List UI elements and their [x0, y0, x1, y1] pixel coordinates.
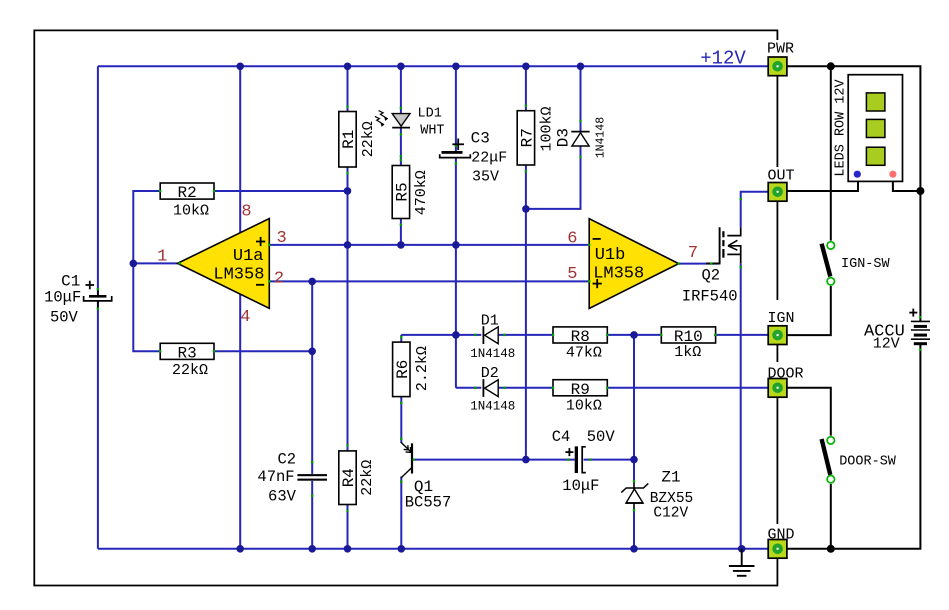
wire Q2 source down to ground rail	[740, 263, 742, 549]
connector pad DOOR	[768, 379, 787, 398]
svg-text:10kΩ: 10kΩ	[566, 398, 602, 415]
wire R1 top lead	[347, 66, 349, 111]
svg-text:Q2: Q2	[701, 267, 720, 285]
resistor R9	[553, 380, 607, 396]
node R7 line / D3	[522, 205, 530, 213]
node pin2 wire / C2 branch	[308, 278, 316, 286]
node top-rail / C3	[452, 63, 460, 71]
svg-text:47kΩ: 47kΩ	[566, 345, 602, 362]
svg-text:4: 4	[240, 308, 250, 327]
resistor R8	[553, 327, 607, 343]
wire pin2 node down through C2	[311, 281, 313, 474]
svg-text:PWR: PWR	[767, 41, 794, 58]
wire top +12V rail	[98, 65, 768, 67]
node R2 / R1 bottom	[344, 187, 352, 195]
wire Q1 base to C4	[412, 459, 575, 461]
wire U1b pin7 output to Q2 gate	[679, 263, 720, 265]
svg-text:22kΩ: 22kΩ	[172, 362, 208, 379]
capacitor C3	[440, 151, 471, 158]
wire OUT pad to LED row left pin	[787, 182, 858, 191]
svg-text:GND: GND	[768, 527, 795, 544]
svg-text:1N4148: 1N4148	[470, 400, 515, 414]
wire DOOR switch to GND wire	[830, 484, 832, 549]
svg-text:LD1: LD1	[418, 106, 442, 121]
node R8 / R10 / Z1 line	[630, 331, 638, 339]
svg-text:50V: 50V	[50, 308, 79, 326]
node top-rail / D3	[577, 63, 585, 71]
resistor R6	[393, 342, 410, 397]
node ground rail / Z1	[630, 545, 638, 553]
node ground rail / R4	[344, 545, 352, 553]
wire C3 bottom to D1 node	[455, 158, 457, 335]
svg-text:12V: 12V	[873, 336, 900, 353]
node pin3 wire / R1-R4 line	[344, 241, 352, 249]
svg-text:1kΩ: 1kΩ	[674, 344, 701, 361]
wire LD1 to R5	[400, 128, 402, 166]
svg-text:IGN-SW: IGN-SW	[841, 257, 891, 272]
connector pad PWR	[768, 57, 787, 76]
svg-text:OUT: OUT	[768, 168, 795, 185]
exterior black wires	[787, 66, 921, 549]
svg-text:1N4148: 1N4148	[594, 117, 607, 159]
wire DOOR pad to DOOR switch	[787, 388, 831, 436]
wire PWR pad to battery top corner	[787, 66, 921, 321]
svg-text:BZX55: BZX55	[650, 491, 694, 507]
capacitor C2	[297, 474, 327, 481]
wire C2 bottom lead	[311, 481, 313, 549]
wire U1a pin2 to U1b pin5	[269, 280, 589, 282]
wire U1a pin8	[239, 66, 241, 238]
wire D2 left lead	[456, 387, 481, 389]
wire R7 top lead	[525, 66, 527, 110]
svg-text:+12V: +12V	[700, 48, 746, 70]
ground symbol (earth)	[729, 549, 755, 576]
svg-text:2.2kΩ: 2.2kΩ	[414, 346, 431, 391]
op-amp U1a	[178, 219, 270, 309]
svg-text:50V: 50V	[587, 428, 616, 446]
node pin3 wire / C3 line	[452, 241, 460, 249]
wire Z1 top segment	[633, 335, 635, 481]
wire bottom ground rail	[98, 548, 768, 550]
diode D2	[483, 379, 498, 397]
svg-text:47nF: 47nF	[257, 468, 294, 486]
resistor R3	[160, 343, 214, 359]
node Q1 base / R7 line	[522, 456, 530, 464]
wire R7 bottom to Q1 base node	[525, 165, 527, 460]
wire battery bottom to GND pad	[787, 345, 921, 549]
switch IGN-SW	[822, 242, 835, 285]
wire U1a pin1 to node	[133, 262, 178, 264]
svg-text:Z1: Z1	[661, 469, 680, 487]
wire left rail lower	[97, 302, 99, 549]
svg-text:22kΩ: 22kΩ	[360, 121, 377, 157]
wire U1a pin4	[239, 290, 241, 549]
svg-text:1N4148: 1N4148	[470, 347, 515, 361]
svg-text:DOOR: DOOR	[768, 365, 804, 382]
svg-text:22μF: 22μF	[471, 150, 507, 167]
svg-text:R7: R7	[518, 128, 536, 147]
resistor R5	[392, 166, 409, 219]
node U1a pin1 / R2 / R3	[130, 260, 138, 268]
pin connection tick marks (green)	[97, 104, 922, 512]
node ground rail / Q1 collector	[398, 545, 406, 553]
svg-text:R8: R8	[571, 328, 590, 346]
svg-text:D2: D2	[481, 365, 499, 382]
svg-text:C3: C3	[471, 129, 490, 147]
wire D3 bottom L to R7 line	[526, 146, 581, 209]
svg-text:D3: D3	[555, 128, 573, 147]
wire R9 to DOOR pad	[607, 387, 768, 389]
node top-rail / R1	[344, 63, 352, 71]
frame border	[34, 30, 777, 585]
svg-text:R5: R5	[393, 182, 411, 201]
svg-text:1: 1	[157, 247, 167, 266]
svg-text:DOOR-SW: DOOR-SW	[839, 454, 897, 469]
connector pad IGN	[768, 326, 787, 345]
resistor R4	[339, 451, 356, 505]
node +12V ext / IGN-SW branch	[827, 62, 835, 70]
wire D3 top lead	[580, 66, 582, 131]
svg-text:R1: R1	[340, 130, 358, 149]
wire LED row right pin to battery line	[893, 182, 921, 191]
battery ACCU 12V	[909, 309, 930, 346]
wire R2 right to R1 bottom node	[214, 190, 348, 192]
wire D2 to R9	[498, 387, 553, 389]
svg-text:470kΩ: 470kΩ	[413, 170, 430, 215]
wire Q1 collector down to rail	[400, 477, 402, 549]
node R3 / C2 line	[308, 348, 316, 356]
wire LD1 top lead	[400, 66, 402, 113]
wire U1a pin3 to U1b pin6	[269, 244, 589, 246]
node top-rail / R7	[522, 63, 530, 71]
label C4 plus	[565, 448, 573, 456]
wire Z1 bottom segment	[633, 510, 635, 549]
label C1 plus	[86, 281, 95, 290]
node battery line / LED row	[916, 187, 924, 195]
node ground rail / pin4 line	[236, 545, 244, 553]
node top-rail / LD1	[397, 63, 405, 71]
node C4 / Z1	[630, 456, 638, 464]
svg-text:10μF: 10μF	[562, 477, 599, 495]
wire +12V branch down to IGN switch	[830, 66, 832, 240]
svg-text:C4: C4	[552, 428, 571, 446]
svg-text:C12V: C12V	[653, 506, 688, 522]
capacitor C1	[84, 289, 112, 308]
svg-text:R2: R2	[177, 184, 196, 202]
label C3 plus	[452, 139, 464, 151]
wire R5 bottom lead	[400, 219, 402, 245]
LED LD1	[375, 111, 410, 128]
node R6 wire / D1-D2	[452, 331, 460, 339]
node top-rail / pin8 branch	[236, 63, 244, 71]
wire R8 to R10	[607, 334, 661, 336]
svg-text:6: 6	[567, 229, 577, 248]
node ground rail / C2	[308, 545, 316, 553]
resistor R10	[661, 327, 715, 343]
resistor R1	[339, 112, 356, 168]
wire C3 top lead	[455, 66, 457, 151]
wire R1 bottom to R4 top	[347, 167, 349, 451]
svg-text:U1b: U1b	[595, 246, 626, 265]
svg-text:R6: R6	[394, 360, 412, 379]
wire R6 top lead	[400, 335, 402, 342]
wire C4 right to Z1 line	[584, 459, 634, 461]
diode D1	[483, 326, 498, 344]
transistor Q1 BC557	[401, 442, 412, 478]
svg-text:IGN: IGN	[768, 310, 795, 327]
zener diode Z1	[621, 480, 648, 511]
svg-text:100kΩ: 100kΩ	[539, 106, 556, 151]
op-amp U1b	[589, 219, 679, 309]
wire Q1 emitter up to R6	[400, 397, 402, 443]
node GND ext / DOOR-SW	[827, 545, 835, 553]
svg-text:10μF: 10μF	[44, 289, 81, 307]
svg-text:LM358: LM358	[213, 266, 264, 285]
connector pad OUT	[768, 183, 787, 202]
svg-text:U1a: U1a	[233, 247, 264, 266]
node pin3 wire / R5	[397, 241, 405, 249]
svg-text:R9: R9	[571, 381, 590, 399]
svg-text:R4: R4	[340, 468, 358, 487]
wire D1 to R8	[498, 334, 553, 336]
svg-text:8: 8	[241, 203, 251, 222]
node ground rail / earth	[738, 545, 746, 553]
wire R2 left loop to R3	[133, 191, 160, 351]
svg-text:2: 2	[274, 270, 284, 289]
wire left rail upper	[97, 66, 99, 294]
svg-text:5: 5	[567, 265, 577, 284]
wire D1 node down to D2	[455, 335, 457, 388]
svg-text:63V: 63V	[268, 488, 297, 506]
svg-text:IRF540: IRF540	[682, 287, 738, 305]
capacitor C4	[575, 446, 586, 473]
svg-text:35V: 35V	[472, 169, 499, 186]
svg-text:BC557: BC557	[405, 493, 452, 511]
connector pad GND	[768, 540, 787, 559]
svg-text:R3: R3	[177, 345, 196, 363]
wire Q2 drain to OUT	[741, 192, 769, 228]
LED row box LEDS ROW 12V	[848, 75, 902, 182]
svg-text:7: 7	[688, 244, 698, 263]
wire R4 bottom lead	[347, 505, 349, 549]
switch DOOR-SW	[822, 437, 835, 483]
diode D3	[571, 132, 589, 146]
transistor Q2 IRF540	[706, 227, 741, 263]
svg-text:3: 3	[276, 229, 286, 248]
svg-text:LEDS ROW 12V: LEDS ROW 12V	[834, 78, 849, 176]
svg-text:LM358: LM358	[593, 265, 644, 284]
svg-text:D1: D1	[481, 313, 499, 330]
svg-text:10kΩ: 10kΩ	[173, 202, 209, 219]
svg-text:22kΩ: 22kΩ	[359, 460, 376, 496]
svg-text:WHT: WHT	[420, 124, 444, 139]
wire R3 right lead	[214, 350, 312, 352]
svg-text:C2: C2	[277, 451, 296, 469]
resistor R2	[160, 183, 214, 199]
wire R6 top horizontal	[401, 334, 481, 336]
wire R10 to IGN pad	[715, 334, 768, 336]
wire IGN switch to IGN pad	[787, 286, 831, 335]
resistor R7	[517, 111, 534, 165]
